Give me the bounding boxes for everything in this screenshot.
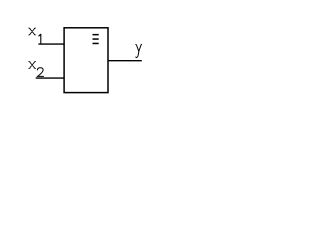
gate body U1 xyxy=(64,28,108,93)
wire input x1 xyxy=(38,43,64,45)
label x2 xyxy=(29,62,44,77)
label x1 xyxy=(29,28,41,44)
wire input x2 xyxy=(36,77,64,79)
equivalence symbol xyxy=(93,34,99,44)
label y xyxy=(136,44,142,57)
wire output y xyxy=(108,60,142,62)
